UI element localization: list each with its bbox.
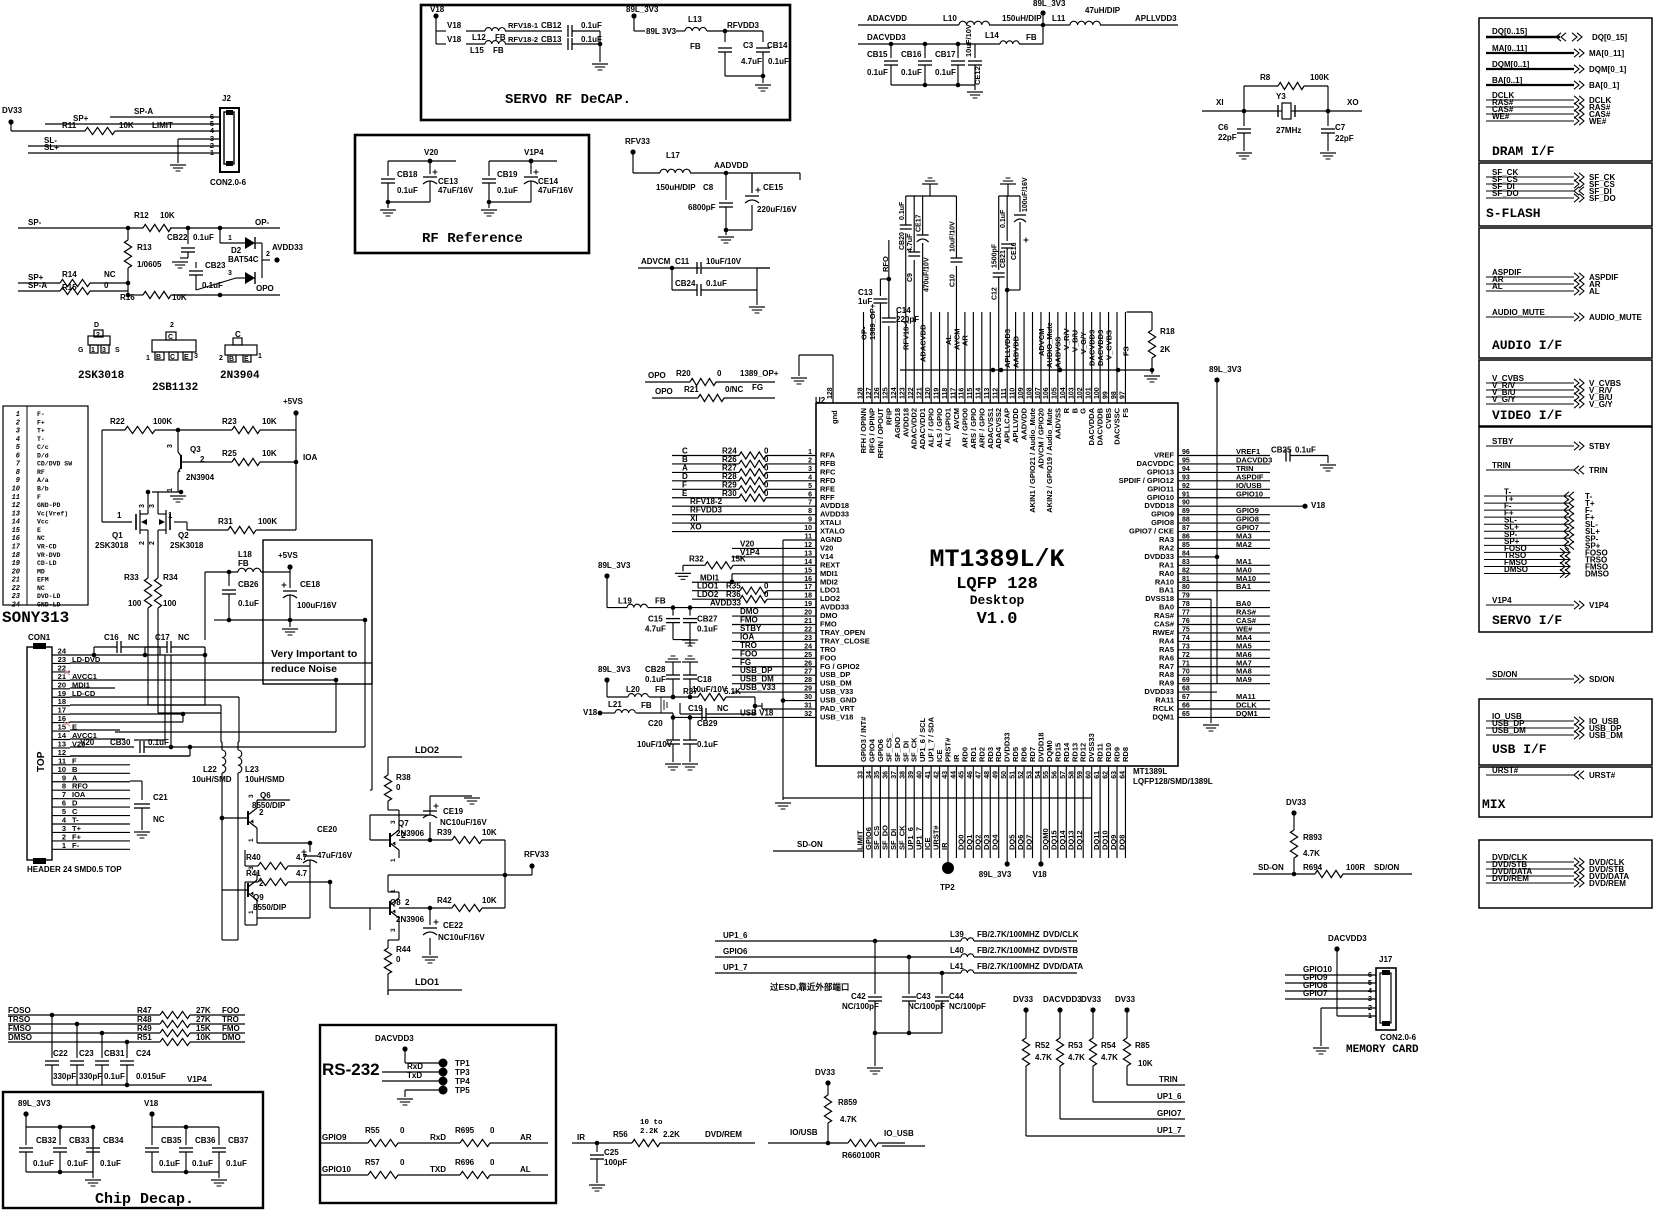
capacitor CE13 47uF/16V <box>429 161 431 174</box>
wire R33 column down <box>147 640 149 705</box>
svg-text:0: 0 <box>490 1158 495 1167</box>
svg-text:R22: R22 <box>110 417 125 426</box>
svg-text:F-: F- <box>72 841 80 850</box>
svg-text:0.1uF: 0.1uF <box>1295 446 1316 455</box>
svg-text:4: 4 <box>16 436 20 444</box>
svg-text:C11: C11 <box>675 257 690 266</box>
svg-text:0.1uF: 0.1uF <box>33 1159 54 1168</box>
svg-text:TRIN: TRIN <box>1492 461 1511 470</box>
svg-text:R20: R20 <box>676 369 691 378</box>
svg-text:D: D <box>94 322 99 329</box>
svg-text:89L_3V3: 89L_3V3 <box>1209 365 1242 374</box>
resistor R893 4.7K <box>1290 830 1297 858</box>
svg-text:IO/USB: IO/USB <box>790 1128 818 1137</box>
svg-text:15K: 15K <box>731 554 746 563</box>
capacitor CB36 0.1uF <box>185 1127 187 1145</box>
svg-text:0.1uF: 0.1uF <box>935 68 956 77</box>
testpoint TP3 <box>439 1068 448 1077</box>
svg-text:NC: NC <box>128 633 140 642</box>
ground <box>665 763 681 765</box>
svg-text:NC: NC <box>104 270 116 279</box>
svg-text:89L_3V3: 89L_3V3 <box>598 665 631 674</box>
svg-text:10K: 10K <box>1138 1059 1153 1068</box>
svg-text:0.1uF: 0.1uF <box>193 233 214 242</box>
svg-text:150uH/DIP: 150uH/DIP <box>1002 14 1042 23</box>
svg-text:CE22: CE22 <box>443 921 464 930</box>
svg-text:C25: C25 <box>604 1148 619 1157</box>
interface block S-FLASH <box>1479 163 1652 226</box>
capacitor CB33 0.1uF <box>59 1127 61 1145</box>
resistor R25 10K <box>181 461 232 463</box>
interface block DRAM I/F <box>1479 18 1652 161</box>
svg-text:TxD: TxD <box>407 1071 422 1080</box>
svg-text:USB_V33: USB_V33 <box>740 683 776 692</box>
capacitor CE20 47uF/16V <box>309 843 311 852</box>
horizontal bus above chip <box>900 369 1152 371</box>
wire cap commons <box>875 1032 942 1034</box>
cap group CB20/C9/CE17/C10 <box>906 195 957 197</box>
svg-text:3: 3 <box>248 866 255 870</box>
svg-text:RxD: RxD <box>430 1133 446 1142</box>
wire CE19 bottom <box>370 814 430 816</box>
capacitor C25 100pF <box>596 1143 598 1152</box>
svg-text:2N3904: 2N3904 <box>186 473 215 482</box>
svg-text:C18: C18 <box>697 675 712 684</box>
svg-text:CB35: CB35 <box>161 1136 182 1145</box>
svg-text:47uF/16V: 47uF/16V <box>538 186 574 195</box>
svg-text:470uF/10V: 470uF/10V <box>924 257 931 292</box>
svg-text:AVDD33: AVDD33 <box>272 243 304 252</box>
svg-text:OPO: OPO <box>648 371 666 380</box>
svg-text:UP1_7: UP1_7 <box>1157 1126 1182 1135</box>
wire DVSS33 to ground bus <box>783 797 1092 799</box>
svg-text:R38: R38 <box>396 773 411 782</box>
svg-text:R49: R49 <box>137 1024 152 1033</box>
wire LD-DVD to LDO <box>130 662 372 664</box>
wire pin2 to ground <box>1321 1007 1376 1009</box>
svg-text:0.1uF: 0.1uF <box>645 675 666 684</box>
svg-text:R16: R16 <box>120 293 135 302</box>
svg-text:FMO: FMO <box>222 1024 240 1033</box>
svg-text:E: E <box>37 527 41 534</box>
svg-text:2N3906: 2N3906 <box>396 915 425 924</box>
svg-text:0.1uF: 0.1uF <box>397 186 418 195</box>
svg-text:C9: C9 <box>907 273 914 282</box>
svg-text:27MHz: 27MHz <box>1276 126 1301 135</box>
svg-text:1: 1 <box>248 910 255 914</box>
svg-text:UP1_6: UP1_6 <box>1157 1092 1182 1101</box>
ground <box>775 802 791 804</box>
ground under bus <box>1151 370 1153 374</box>
svg-text:4.7uF: 4.7uF <box>907 233 914 252</box>
svg-text:CE16: CE16 <box>1011 242 1018 260</box>
wire R34 column down <box>157 648 159 713</box>
svg-text:XO: XO <box>690 523 702 532</box>
ground <box>967 91 983 93</box>
svg-text:CB25: CB25 <box>1271 446 1292 455</box>
capacitor CE14 47uF/16V <box>530 161 532 174</box>
svg-text:L18: L18 <box>238 550 252 559</box>
svg-text:CON2.0-6: CON2.0-6 <box>1380 1033 1417 1042</box>
interface block USB I/F <box>1479 699 1652 765</box>
svg-text:CON2.0-6: CON2.0-6 <box>210 178 247 187</box>
capacitor CB28 0.1uF <box>666 674 680 676</box>
svg-text:0: 0 <box>400 1158 405 1167</box>
svg-text:0.1uF: 0.1uF <box>159 1159 180 1168</box>
svg-text:15: 15 <box>12 527 21 535</box>
svg-text:CB23: CB23 <box>205 261 226 270</box>
cap group C12/CB21/CE16 <box>999 195 1020 197</box>
svg-text:CB21: CB21 <box>1000 250 1007 268</box>
svg-text:12: 12 <box>12 502 21 510</box>
svg-text:DVD/REM: DVD/REM <box>1492 874 1529 883</box>
svg-text:MA[0_11]: MA[0_11] <box>1589 49 1624 58</box>
svg-text:L21: L21 <box>608 700 622 709</box>
svg-text:220uF/16V: 220uF/16V <box>757 205 797 214</box>
capacitor CB12 0.1uF <box>567 25 569 37</box>
svg-text:URST#: URST# <box>1492 766 1519 775</box>
capacitor C20 10uF/10V <box>672 717 674 740</box>
svg-text:3: 3 <box>390 928 397 932</box>
svg-text:0.1uF: 0.1uF <box>104 1072 125 1081</box>
connector table SONY313 <box>3 406 88 605</box>
wire RFV18-2 row7 <box>672 505 816 507</box>
svg-text:SF_DO: SF_DO <box>1589 194 1616 203</box>
svg-text:CE12: CE12 <box>973 66 982 85</box>
svg-text:SD/ON: SD/ON <box>1492 670 1518 679</box>
capacitor CB24 0.1uF <box>671 268 673 290</box>
svg-text:RxD: RxD <box>407 1062 423 1071</box>
testpoint TP5 <box>439 1086 448 1095</box>
svg-text:NC: NC <box>37 535 45 542</box>
svg-text:R8: R8 <box>1260 73 1271 82</box>
svg-text:LD-CD: LD-CD <box>72 689 96 698</box>
svg-text:R48: R48 <box>137 1015 152 1024</box>
inductor L15 <box>466 43 485 45</box>
svg-text:2: 2 <box>96 332 100 339</box>
svg-text:AUDIO_MUTE: AUDIO_MUTE <box>1589 313 1643 322</box>
svg-text:RFV33: RFV33 <box>625 137 650 146</box>
svg-text:2: 2 <box>401 831 406 840</box>
svg-text:C24: C24 <box>136 1049 151 1058</box>
svg-text:89L 3V3: 89L 3V3 <box>646 27 677 36</box>
decap group 2 wires <box>152 1126 219 1128</box>
svg-text:R55: R55 <box>365 1126 380 1135</box>
svg-text:R13: R13 <box>137 243 152 252</box>
resistor R23 10K <box>178 429 232 431</box>
capacitor CB32 0.1uF <box>25 1127 27 1145</box>
svg-text:1uF: 1uF <box>858 297 872 306</box>
wire OPO <box>220 294 280 296</box>
svg-text:0: 0 <box>764 489 769 498</box>
svg-text:2SK3018: 2SK3018 <box>170 541 204 550</box>
svg-text:C19: C19 <box>688 704 703 713</box>
svg-text:CB13: CB13 <box>541 35 562 44</box>
svg-text:CB27: CB27 <box>697 615 718 624</box>
svg-text:47uF/16V: 47uF/16V <box>438 186 474 195</box>
svg-text:C7: C7 <box>1335 123 1346 132</box>
svg-text:0.1uF: 0.1uF <box>706 279 727 288</box>
wire AVDD33 row19 <box>673 607 816 609</box>
svg-text:R12: R12 <box>134 211 149 220</box>
svg-text:2: 2 <box>405 898 410 907</box>
svg-text:1: 1 <box>390 889 397 893</box>
svg-text:UP1_6: UP1_6 <box>723 931 748 940</box>
svg-text:AVDD33: AVDD33 <box>710 599 742 608</box>
power flag 89L_3V3 <box>631 13 636 18</box>
svg-text:USB I/F: USB I/F <box>1492 742 1547 757</box>
svg-text:S: S <box>115 347 120 354</box>
svg-text:CB22: CB22 <box>167 233 188 242</box>
svg-text:AR: AR <box>520 1133 532 1142</box>
svg-text:APLLVDD3: APLLVDD3 <box>1135 14 1177 23</box>
svg-text:3: 3 <box>102 347 106 354</box>
svg-text:CE14: CE14 <box>538 177 559 186</box>
svg-text:C14: C14 <box>896 306 911 315</box>
svg-text:STBY: STBY <box>1492 437 1514 446</box>
svg-text:FS: FS <box>1121 346 1130 356</box>
svg-text:CB26: CB26 <box>238 580 259 589</box>
ground <box>1320 152 1336 154</box>
svg-text:47uF/16V: 47uF/16V <box>317 851 353 860</box>
power node V1P4 <box>529 159 534 164</box>
resistor R44 0 <box>387 940 389 948</box>
x mark pin22 <box>63 670 70 675</box>
svg-text:TP5: TP5 <box>455 1086 470 1095</box>
svg-text:EFM: EFM <box>37 577 49 584</box>
wire row31 PAD_VRT link <box>755 705 762 707</box>
svg-text:DVD/STB: DVD/STB <box>1043 946 1078 955</box>
svg-text:FB: FB <box>238 559 249 568</box>
svg-text:L13: L13 <box>688 15 702 24</box>
svg-text:L23: L23 <box>245 765 259 774</box>
svg-text:GPIO10: GPIO10 <box>1236 489 1263 498</box>
svg-text:C44: C44 <box>949 992 964 1001</box>
svg-text:AR: AR <box>961 335 970 346</box>
svg-text:R85: R85 <box>1135 1041 1150 1050</box>
svg-text:3: 3 <box>139 504 146 508</box>
svg-text:Desktop: Desktop <box>970 593 1025 608</box>
svg-text:R44: R44 <box>396 945 411 954</box>
svg-text:SD/ON: SD/ON <box>1589 675 1615 684</box>
svg-text:V18: V18 <box>1033 870 1048 879</box>
resistor R22 100K <box>102 429 125 431</box>
svg-text:R696: R696 <box>455 1158 475 1167</box>
wire Q8 <box>369 908 371 930</box>
svg-text:Q8: Q8 <box>390 898 401 907</box>
svg-text:BAT54C: BAT54C <box>228 255 259 264</box>
ground <box>85 1179 101 1181</box>
interface block SERVO I/F <box>1479 427 1652 632</box>
svg-text:gnd: gnd <box>830 410 839 424</box>
svg-text:F+: F+ <box>37 419 45 426</box>
svg-text:CB15: CB15 <box>867 50 888 59</box>
svg-text:CB16: CB16 <box>901 50 922 59</box>
svg-text:DACVDD3: DACVDD3 <box>1328 934 1367 943</box>
svg-text:DV33: DV33 <box>815 1068 836 1077</box>
svg-text:DACVDD3: DACVDD3 <box>867 33 906 42</box>
wire CB30 row to L22/L23 area <box>190 746 365 748</box>
svg-text:RFV18-2: RFV18-2 <box>508 35 538 44</box>
svg-text:AUDIO I/F: AUDIO I/F <box>1492 338 1562 353</box>
svg-text:1389_OP+: 1389_OP+ <box>868 303 877 340</box>
svg-text:V_CVBS: V_CVBS <box>1104 330 1113 360</box>
svg-text:F-: F- <box>37 411 45 418</box>
svg-text:DVD/DATA: DVD/DATA <box>1043 962 1083 971</box>
svg-text:1: 1 <box>16 411 20 419</box>
svg-text:R660100R: R660100R <box>842 1151 880 1160</box>
svg-text:CB12: CB12 <box>541 21 562 30</box>
svg-text:C23: C23 <box>79 1049 94 1058</box>
svg-text:L14: L14 <box>985 31 999 40</box>
svg-text:1/0605: 1/0605 <box>137 260 162 269</box>
svg-text:2SB1132: 2SB1132 <box>152 382 198 394</box>
decap group 1 wires <box>26 1126 93 1128</box>
svg-text:NC/100pF: NC/100pF <box>842 1002 879 1011</box>
svg-text:0.1uF: 0.1uF <box>901 68 922 77</box>
node AADVDD <box>724 171 729 176</box>
capacitor C18 10uF/10V <box>683 674 697 676</box>
svg-text:E: E <box>184 354 189 361</box>
svg-text:SF_DO: SF_DO <box>1492 189 1519 198</box>
svg-text:89L_3V3: 89L_3V3 <box>18 1099 51 1108</box>
svg-text:RD8: RD8 <box>1121 747 1130 762</box>
node RFVDD3 <box>723 29 728 34</box>
ground <box>791 377 807 379</box>
svg-text:DRAM I/F: DRAM I/F <box>1492 144 1555 159</box>
svg-text:V1P4: V1P4 <box>1492 596 1512 605</box>
svg-text:2: 2 <box>170 322 174 329</box>
svg-text:V18: V18 <box>447 21 462 30</box>
svg-text:DVD/CLK: DVD/CLK <box>1043 930 1079 939</box>
svg-text:0: 0 <box>400 1126 405 1135</box>
svg-text:10K: 10K <box>262 417 277 426</box>
power node V18 pin90 <box>1302 504 1307 509</box>
svg-text:HEADER 24 SMD0.5 TOP: HEADER 24 SMD0.5 TOP <box>27 865 122 874</box>
svg-text:CD/DVD SW: CD/DVD SW <box>37 461 72 468</box>
svg-text:DV33: DV33 <box>1286 798 1307 807</box>
svg-text:USB V18: USB V18 <box>740 708 774 717</box>
svg-text:10 to: 10 to <box>640 1119 663 1127</box>
svg-text:CB36: CB36 <box>195 1136 216 1145</box>
resistor R16 10K <box>128 294 143 296</box>
svg-text:23: 23 <box>12 593 21 601</box>
svg-text:2N3904: 2N3904 <box>220 370 260 382</box>
wires CON1 to nets <box>70 654 205 656</box>
svg-text:MA2: MA2 <box>1236 540 1252 549</box>
svg-text:E: E <box>682 489 688 498</box>
svg-text:DMO: DMO <box>222 1033 241 1042</box>
svg-text:DACVDD3: DACVDD3 <box>375 1034 414 1043</box>
wire MDI1 row15 <box>732 573 816 575</box>
capacitor CE15 220uF/16V <box>751 173 753 193</box>
svg-text:R57: R57 <box>365 1158 380 1167</box>
svg-text:IOA: IOA <box>303 453 317 462</box>
svg-text:13: 13 <box>12 510 21 518</box>
svg-text:4.7uF: 4.7uF <box>645 625 666 634</box>
chip right pin wires <box>1178 455 1270 457</box>
svg-text:C42: C42 <box>851 992 866 1001</box>
capacitor C43 NC/100pF <box>908 957 910 994</box>
svg-text:1: 1 <box>117 511 122 520</box>
svg-text:J2: J2 <box>222 94 231 103</box>
svg-text:1: 1 <box>228 235 232 242</box>
svg-text:11: 11 <box>12 494 20 502</box>
svg-text:WE#: WE# <box>1589 117 1607 126</box>
power node V20 <box>428 159 433 164</box>
wire C16 column down <box>164 655 166 740</box>
svg-text:G: G <box>78 347 84 354</box>
svg-text:1: 1 <box>62 841 66 850</box>
svg-text:D/d: D/d <box>37 452 49 459</box>
svg-text:NC10uF/16V: NC10uF/16V <box>438 933 485 942</box>
svg-text:SP-A: SP-A <box>28 281 47 290</box>
svg-text:4.7K: 4.7K <box>1101 1053 1118 1062</box>
svg-text:100K: 100K <box>1310 73 1329 82</box>
svg-text:10K: 10K <box>196 1033 211 1042</box>
svg-text:SP-: SP- <box>28 218 42 227</box>
ground <box>755 84 771 86</box>
transistor Q1 2SK3018 <box>101 430 103 522</box>
svg-text:RFV18-1: RFV18-1 <box>508 21 538 30</box>
svg-text:2: 2 <box>149 541 156 545</box>
svg-text:T+: T+ <box>37 428 45 435</box>
testpoint TP4 <box>439 1077 448 1086</box>
svg-text:0: 0 <box>717 369 722 378</box>
resistor R31 100K <box>187 529 228 531</box>
svg-text:FB: FB <box>655 597 666 606</box>
svg-text:UP1_7: UP1_7 <box>723 963 748 972</box>
svg-text:V_G/Y: V_G/Y <box>1492 395 1516 404</box>
svg-text:RF Reference: RF Reference <box>422 231 523 247</box>
svg-text:SD-ON: SD-ON <box>797 840 823 849</box>
svg-text:L17: L17 <box>666 151 680 160</box>
svg-text:89L_3V3: 89L_3V3 <box>626 5 659 14</box>
svg-text:DQM1: DQM1 <box>1236 709 1258 718</box>
svg-text:GND-LD: GND-LD <box>37 601 61 608</box>
wire USB_V18 row32 <box>673 716 816 718</box>
svg-text:CB31: CB31 <box>104 1049 125 1058</box>
ground <box>675 572 691 574</box>
wire <box>387 875 389 892</box>
svg-text:R39: R39 <box>437 828 452 837</box>
svg-text:OP-: OP- <box>255 218 270 227</box>
ground <box>422 956 438 958</box>
svg-text:100: 100 <box>128 599 142 608</box>
svg-text:CD-LD: CD-LD <box>37 560 57 567</box>
svg-text:47uH/DIP: 47uH/DIP <box>1085 6 1121 15</box>
resistor R42 10K <box>428 906 433 911</box>
svg-text:2SK3018: 2SK3018 <box>95 541 129 550</box>
svg-text:2: 2 <box>266 251 270 258</box>
capacitor CB27 0.1uF <box>689 608 691 616</box>
svg-text:3: 3 <box>167 444 174 448</box>
svg-text:0.1uF: 0.1uF <box>238 599 259 608</box>
resistor R41 4.7 <box>245 881 258 883</box>
ground <box>682 639 698 641</box>
ground <box>749 306 765 308</box>
svg-text:CE17: CE17 <box>916 214 923 232</box>
svg-text:22: 22 <box>12 585 21 593</box>
svg-text:DQ[0..15]: DQ[0..15] <box>1492 27 1527 36</box>
svg-text:reduce Noise: reduce Noise <box>271 663 337 675</box>
svg-text:DQ8: DQ8 <box>1117 835 1126 850</box>
svg-text:Vc(Vref): Vc(Vref) <box>37 510 68 517</box>
ground <box>180 257 188 259</box>
inductor L12 <box>466 30 485 32</box>
svg-text:Q6: Q6 <box>260 791 271 800</box>
svg-text:2: 2 <box>139 541 146 545</box>
